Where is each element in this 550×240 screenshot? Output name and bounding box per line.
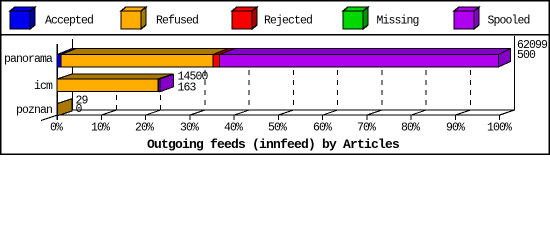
origin 3d diagonal <box>41 110 73 121</box>
svg-text:500: 500 <box>517 49 536 62</box>
dashed gridline 60% <box>337 67 339 110</box>
dashed gridline 40% <box>248 67 250 110</box>
dashed gridline 90% <box>470 67 472 110</box>
svg-text:panorama: panorama <box>4 53 53 66</box>
legend cube Refused <box>121 7 146 29</box>
x ticks and diagonals <box>57 110 500 120</box>
dashed gridline 70% <box>381 67 383 110</box>
right axis (100% back) <box>514 36 516 111</box>
dashed gridline 30% <box>204 67 206 110</box>
dashed gridline 50% <box>293 67 295 110</box>
svg-text:10%: 10% <box>91 122 110 135</box>
svg-text:20%: 20% <box>135 122 154 135</box>
dashed gridline 20% <box>160 92 162 111</box>
front-left axis <box>56 44 58 120</box>
dashed gridline 80% <box>425 67 427 110</box>
svg-text:70%: 70% <box>357 122 376 135</box>
legend cube Accepted <box>10 7 35 29</box>
svg-text:Refused: Refused <box>156 15 198 28</box>
back bottom axis <box>57 109 515 111</box>
corner 3d diagonal right <box>500 110 515 115</box>
bar panorama: blue accepted segment <box>57 49 76 67</box>
svg-text:Rejected: Rejected <box>264 15 312 28</box>
bar icm: purple spooled segment <box>159 74 174 92</box>
svg-text:60%: 60% <box>313 122 332 135</box>
svg-text:Spooled: Spooled <box>488 15 530 28</box>
front bottom axis <box>57 114 500 116</box>
svg-text:0%: 0% <box>50 122 63 135</box>
svg-text:Missing: Missing <box>377 15 419 28</box>
svg-text:163: 163 <box>178 82 197 95</box>
legend cube Missing <box>343 7 368 29</box>
bar panorama: orange refused segment <box>61 49 228 67</box>
legend separator line <box>0 34 550 36</box>
svg-text:Accepted: Accepted <box>45 15 93 28</box>
dashed gridline 10% <box>116 92 118 111</box>
bar panorama: purple spooled segment <box>220 49 511 67</box>
x tick labels <box>50 122 512 135</box>
svg-text:100%: 100% <box>487 122 512 135</box>
svg-text:0: 0 <box>76 103 83 116</box>
svg-text:40%: 40% <box>224 122 243 135</box>
legend cube Spooled <box>454 7 479 29</box>
outer border <box>1 1 550 155</box>
svg-text:50%: 50% <box>268 122 287 135</box>
legend cube Rejected <box>232 7 257 29</box>
svg-text:30%: 30% <box>180 122 199 135</box>
back-left axis (0% back line) <box>72 39 74 111</box>
svg-text:Outgoing feeds (innfeed) by Ar: Outgoing feeds (innfeed) by Articles <box>147 137 400 152</box>
bar poznan: orange refused segment <box>58 99 73 116</box>
svg-text:80%: 80% <box>401 122 420 135</box>
svg-text:icm: icm <box>34 80 53 93</box>
svg-text:90%: 90% <box>446 122 465 135</box>
svg-text:poznan: poznan <box>16 104 52 117</box>
bar icm: orange refused segment <box>57 74 173 92</box>
bar panorama: red rejected segment <box>213 49 235 67</box>
